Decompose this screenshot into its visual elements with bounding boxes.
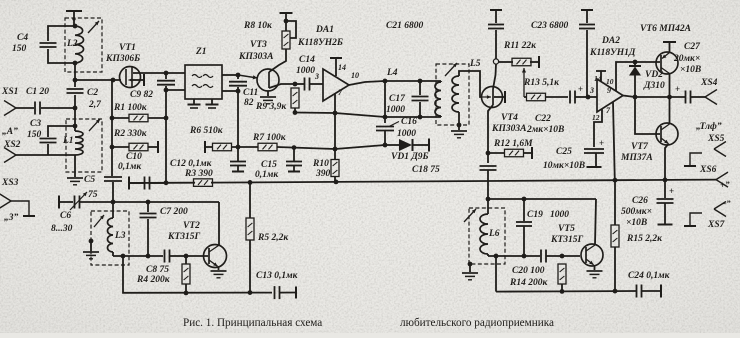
tuning arrow of L3 (94, 215, 104, 227)
value C25 10mkx10V (543, 161, 585, 171)
label VT4 (501, 113, 518, 123)
wire gate VT3 (238, 75, 258, 79)
tuning arrow of L2 (88, 21, 99, 33)
caption left (183, 317, 322, 329)
svg-text:C14: C14 (299, 55, 315, 65)
node R1 left (110, 116, 115, 121)
capacitor C6 (59, 196, 113, 209)
wire C16 column (384, 81, 386, 123)
connector XS3 (0, 194, 35, 217)
svg-text:R13 5,1к: R13 5,1к (523, 78, 560, 88)
svg-text:C21 6800: C21 6800 (386, 21, 423, 31)
wire L1 bottom to ground (74, 155, 76, 177)
wire L6 bottom row (488, 255, 540, 257)
label C10 (126, 152, 142, 162)
svg-text:C23 6800: C23 6800 (531, 21, 568, 31)
diode VD2 (629, 62, 641, 97)
inductor L4 (435, 81, 441, 117)
svg-text:8...30: 8...30 (51, 224, 73, 234)
label XS7 (707, 220, 726, 230)
svg-text:VT4: VT4 (501, 113, 518, 123)
svg-text:L6: L6 (488, 229, 500, 239)
node bus/C26 (663, 178, 668, 183)
op-amp DA1 (323, 69, 349, 101)
svg-text:2,7: 2,7 (88, 100, 102, 110)
node VT2 base (184, 254, 189, 259)
node C15 top (292, 145, 297, 150)
node bus/R10 (334, 180, 339, 185)
label VD2 (645, 70, 663, 80)
node R12 (486, 151, 491, 156)
label DA1 type K118UN2B (297, 38, 343, 48)
wire gate row VT1 (75, 79, 121, 81)
resistor R15 (611, 180, 619, 291)
ground of VT3 (260, 97, 276, 104)
bus wire left part (129, 182, 195, 184)
svg-text:C15: C15 (261, 160, 277, 170)
svg-text:10: 10 (606, 77, 614, 86)
node R14 bottom (560, 289, 565, 294)
svg-text:C1 20: C1 20 (26, 87, 49, 97)
capacitor C25 (584, 138, 604, 167)
node L5 ground (457, 123, 462, 128)
value C14 1000 (296, 66, 315, 76)
label C24 0,1mk (628, 271, 671, 281)
tuning arrow L4 L5 (445, 63, 457, 76)
svg-text:C22: C22 (535, 114, 551, 124)
pin 3 DA1 (314, 72, 319, 81)
label VT3 type KP303A (238, 52, 273, 62)
op-amp DA2 (588, 79, 623, 112)
capacitor C9 (157, 73, 175, 118)
node C11 bottom (236, 89, 241, 94)
wire Z1 right lower pin (222, 90, 238, 92)
wire L1 top (74, 108, 76, 131)
capacitor C7 (140, 202, 157, 256)
value C22 2mkx10V (526, 125, 564, 135)
label VT5 (558, 224, 575, 234)
resistor R9 (291, 88, 299, 113)
wire L4 bottom row (385, 116, 441, 118)
wire pin9 to VT7 base (635, 97, 660, 134)
wire DA2 output (623, 96, 635, 98)
shield box of L1 (66, 119, 102, 172)
shield box of L3 (91, 211, 129, 265)
label VT2 (183, 221, 200, 231)
pin 14 DA2 (596, 71, 606, 82)
svg-text:390: 390 (315, 169, 331, 179)
svg-text:Д310: Д310 (643, 81, 665, 91)
wire L5 bottom (458, 112, 460, 130)
node detector top (383, 79, 388, 84)
svg-text:0,1мк: 0,1мк (118, 162, 142, 172)
wire XS2 to L1 (16, 154, 75, 156)
svg-text:КП306Б: КП306Б (105, 54, 140, 64)
svg-text:L4: L4 (386, 68, 398, 78)
capacitor C27 (635, 84, 705, 104)
crystal filter Z1 (185, 65, 222, 99)
label R10 (312, 159, 329, 169)
capacitor C20 (541, 250, 580, 263)
wire VT3 source (269, 84, 295, 88)
value R10 390 (315, 169, 331, 179)
connector XS5 (684, 142, 726, 167)
value C4 150 (12, 44, 27, 54)
node pin7/R9 row (333, 111, 338, 116)
capacitor C1 (16, 102, 75, 115)
node R8 top (284, 19, 289, 24)
svg-text:XS5: XS5 (707, 134, 725, 144)
svg-text:R12 1,6М: R12 1,6М (493, 139, 533, 149)
label R12 1,6M (493, 139, 533, 149)
wire VT1 drain (133, 72, 185, 74)
connector XS4 (705, 90, 717, 105)
svg-text:Z1: Z1 (195, 47, 207, 57)
wire DA1 output pin10 (349, 81, 385, 85)
label C21 6800 (386, 21, 423, 31)
svg-text:+: + (669, 186, 674, 196)
value C3 150 (27, 130, 42, 140)
label R14 200k (509, 278, 548, 288)
node C7 bottom (146, 254, 151, 259)
wire L4 top row (385, 80, 441, 82)
label C23 6800 (531, 21, 568, 31)
node C9 bottom (164, 88, 169, 93)
wire VT5 collector (595, 199, 596, 245)
transistor VT3 (257, 69, 279, 91)
svg-text:3: 3 (589, 86, 594, 95)
svg-text:XS6: XS6 (699, 165, 717, 175)
ground of L3 (83, 252, 99, 259)
value C5 75 (88, 190, 98, 200)
svg-text:„Тлф”: „Тлф” (696, 121, 722, 132)
svg-text:+”: +” (720, 180, 730, 190)
resistor R10 (331, 160, 339, 182)
svg-text:C27: C27 (684, 42, 701, 52)
connector XS6 (716, 172, 728, 187)
wire L5 top to VT4 gate (459, 71, 482, 97)
transistor VT4 (482, 87, 506, 108)
label C11 (243, 88, 258, 98)
node R6/C11 (236, 145, 241, 150)
pin 10 label (351, 71, 359, 80)
transistor VT6 (656, 52, 678, 74)
resistor R6 (205, 141, 258, 153)
svg-text:C3: C3 (30, 119, 41, 129)
label minus (721, 198, 731, 208)
node VT3 source (293, 82, 298, 87)
node gate row / L2 (73, 78, 78, 83)
label XS4 (700, 78, 718, 88)
node detector diode (383, 143, 388, 148)
svg-text:14: 14 (594, 74, 602, 83)
svg-text:С10: С10 (126, 152, 142, 162)
svg-text:C25: C25 (556, 147, 572, 157)
bus wire main (211, 180, 716, 183)
wire C9 column to bus (165, 118, 167, 183)
capacitor C11 (229, 75, 247, 91)
label XS1 (1, 87, 18, 97)
node R9 bottom (293, 110, 298, 115)
label C14 (299, 55, 315, 65)
wire VT4 source column (487, 153, 489, 163)
svg-text:–”: –” (721, 198, 731, 208)
svg-text:2мк×10В: 2мк×10В (526, 125, 564, 135)
inductor L5 (452, 76, 459, 112)
svg-text:75: 75 (88, 190, 98, 200)
value C15 0,1mk (255, 170, 279, 180)
label R5 2,2k (257, 233, 289, 243)
capacitor C14 (295, 78, 323, 91)
label DA2 (601, 36, 620, 46)
capacitor C15 (286, 148, 302, 172)
svg-text:10: 10 (351, 71, 359, 80)
svg-text:R11 22к: R11 22к (503, 41, 537, 51)
label C27 (684, 42, 701, 52)
node C11 top (236, 73, 241, 78)
node C3 top (73, 124, 78, 129)
Z1 leg 1 to chassis (188, 99, 201, 108)
label C25 (556, 147, 572, 157)
node L2 top (73, 24, 78, 29)
svg-text:20мк×: 20мк× (673, 54, 700, 64)
shield box of L2 (65, 18, 102, 72)
pin 3 DA2 label (589, 86, 594, 95)
svg-text:×10В: ×10В (680, 65, 701, 75)
label L1 (62, 136, 74, 146)
svg-text:R5 2,2к: R5 2,2к (257, 233, 289, 243)
wire VT4 source (488, 105, 493, 153)
svg-text:XS3: XS3 (1, 178, 19, 188)
C6 tuning arrow (70, 192, 87, 210)
label C18 75 (412, 165, 440, 175)
transistor VT7 (656, 123, 678, 145)
label VT6 MP42A (640, 24, 691, 34)
node C19 top (522, 197, 527, 202)
node R15 bottom (613, 289, 618, 294)
label VT7 (631, 142, 649, 152)
label C16 (389, 117, 417, 127)
wire VT2 emitter (218, 267, 220, 270)
wire VT6 base (635, 61, 660, 63)
label C26 (632, 196, 648, 206)
capacitor C4 (40, 26, 76, 63)
svg-text:10мк×10В: 10мк×10В (543, 161, 585, 171)
svg-text:К118УН2Б: К118УН2Б (297, 38, 343, 48)
resistor R8 (280, 13, 297, 49)
label DA2 type K118UN1D (589, 48, 636, 58)
capacitor C5 (104, 177, 122, 202)
svg-text:С16: С16 (401, 117, 417, 127)
svg-text:КТ315Г: КТ315Г (167, 232, 200, 242)
label R9 3,9k (255, 102, 287, 112)
svg-text:R2 330к: R2 330к (113, 129, 148, 139)
label L4 (386, 68, 398, 78)
svg-text:Рис. 1. Принципальная схема: Рис. 1. Принципальная схема (183, 317, 322, 329)
label C7 200 (160, 207, 188, 217)
label R11 22k (503, 41, 537, 51)
svg-text:L2: L2 (66, 39, 78, 49)
svg-text:R9 3,9к: R9 3,9к (255, 102, 287, 112)
tuning arrow of L1 (89, 119, 100, 131)
svg-text:3: 3 (314, 72, 319, 81)
resistor R1 (112, 114, 166, 122)
node R5 bottom (248, 290, 253, 295)
capacitor C26 (657, 180, 675, 225)
label Z1 (195, 47, 207, 57)
wire VT7 emitter (665, 144, 669, 180)
value C2 2,7 (88, 100, 102, 110)
label VT3 (250, 40, 267, 50)
value C16 1000 (397, 129, 416, 139)
value C17 1000 (386, 105, 405, 115)
wire tuned row (113, 201, 219, 203)
svg-text:R3 390: R3 390 (184, 169, 213, 179)
label C17 (389, 94, 406, 104)
capacitor C12 (230, 147, 246, 172)
capacitor C2 (67, 63, 84, 108)
label DA1 (315, 25, 334, 35)
node L6 screen ground (468, 262, 473, 267)
node VD2 top (633, 60, 638, 65)
capacitor C8 (165, 250, 187, 263)
pin 7 label (338, 88, 343, 97)
svg-text:XS7: XS7 (707, 220, 726, 230)
L3 screen ground stub (90, 241, 92, 251)
value C10 0,1mk (118, 162, 142, 172)
inductor L2 (75, 26, 84, 63)
wire VT6 collector (669, 74, 671, 98)
svg-text:VD1 Д9Б: VD1 Д9Б (391, 152, 429, 162)
svg-text:1000: 1000 (550, 210, 569, 220)
svg-text:VT5: VT5 (558, 224, 575, 234)
antenna terminal W1 (66, 11, 82, 26)
svg-text:VT1: VT1 (119, 43, 136, 53)
svg-text:C26: C26 (632, 196, 648, 206)
label XS2 (3, 140, 21, 150)
svg-text:C6: C6 (60, 211, 71, 221)
svg-text:C17: C17 (389, 94, 406, 104)
wire VT5 emitter (594, 266, 596, 271)
pin 14 label (338, 63, 346, 72)
label C5 (84, 175, 95, 185)
label R8 10k (243, 21, 273, 31)
svg-text:C4: C4 (17, 33, 28, 43)
label C1 20 (26, 87, 49, 97)
ground of L4 L5 (451, 131, 467, 138)
resistor R12 (488, 147, 532, 159)
ground of VT2 (211, 271, 227, 278)
label R2 330k (113, 129, 148, 139)
svg-text:1000: 1000 (386, 105, 405, 115)
svg-text:C18 75: C18 75 (412, 165, 440, 175)
resistor R14 (558, 264, 566, 291)
svg-text:VT3: VT3 (250, 40, 267, 50)
svg-text:R4 200к: R4 200к (136, 275, 171, 285)
svg-text:1000: 1000 (296, 66, 315, 76)
svg-text:DA1: DA1 (315, 25, 334, 35)
svg-text:L5: L5 (469, 59, 481, 69)
svg-text:C11: C11 (243, 88, 258, 98)
resistor R3 in bus (194, 179, 213, 187)
label VT2 type KT315G (167, 232, 200, 242)
svg-text:VT2: VT2 (183, 221, 200, 231)
node L6 top (486, 197, 491, 202)
svg-text:L3: L3 (114, 231, 126, 241)
svg-text:VT7: VT7 (631, 142, 649, 152)
label C20 100 (512, 266, 545, 276)
label VD1 D9B (391, 152, 429, 162)
label C12 0,1mk (170, 159, 213, 169)
connector XS2 (4, 148, 16, 163)
label VT1 type KP306B (105, 54, 140, 64)
wire VT2 collector (218, 202, 220, 245)
transistor VT1 (120, 67, 145, 88)
svg-text:R6 510к: R6 510к (189, 126, 224, 136)
svg-text:C9 82: C9 82 (130, 90, 153, 100)
node L2 bottom (73, 61, 78, 66)
svg-text:XS2: XS2 (3, 140, 21, 150)
label C4 (17, 33, 28, 43)
svg-text:КТ315Г: КТ315Г (550, 235, 583, 245)
svg-text:82: 82 (244, 98, 254, 108)
svg-text:„А”: „А” (2, 127, 18, 137)
node R2 left (110, 145, 115, 150)
capacitor C18 (480, 166, 497, 199)
svg-text:C24 0,1мк: C24 0,1мк (628, 271, 671, 281)
label R7 100k (252, 133, 287, 143)
svg-text:+: + (578, 84, 583, 94)
shield box of L6 (469, 208, 505, 264)
node bus/R5 (248, 180, 253, 185)
label C22 (535, 114, 551, 124)
label VD2 type D310 (643, 81, 665, 91)
label C6 (60, 211, 71, 221)
ground of L1 (67, 178, 83, 185)
ground of L6 (462, 273, 478, 280)
svg-text:XS4: XS4 (700, 78, 718, 88)
capacitor C19 (516, 199, 532, 256)
node output/VD2 (633, 95, 638, 100)
pin 14 DA1 (330, 58, 342, 76)
label R4 200k (136, 275, 171, 285)
wire R9 row (295, 113, 385, 118)
transistor VT5 (581, 244, 603, 266)
svg-text:R1 100к: R1 100к (113, 103, 148, 113)
caption right (400, 317, 554, 329)
svg-text:+: + (599, 138, 604, 148)
wire VT7 collector (669, 97, 671, 124)
label L6 (488, 229, 500, 239)
svg-text:C7 200: C7 200 (160, 207, 188, 217)
svg-text:C19: C19 (527, 210, 543, 220)
svg-text:VТ6 МП42А: VТ6 МП42А (640, 24, 691, 34)
VT6 emitter terminal (663, 42, 676, 53)
capacitor C23 (579, 10, 595, 97)
resistor R4 (182, 256, 190, 293)
connector XS7 (684, 202, 726, 227)
shield box of L4 L5 (436, 64, 469, 125)
R11 wiper (522, 68, 526, 97)
node C7 top (146, 200, 151, 205)
label VT7 type MP37A (620, 153, 653, 163)
Z1 leg 2 to chassis (206, 99, 219, 108)
capacitor C21 (488, 10, 504, 59)
wire VT3 to ground (267, 91, 269, 96)
pin 7 DA2 label (606, 106, 611, 115)
pin 10 DA2 label (606, 77, 614, 86)
ground of VT5 (587, 271, 603, 278)
